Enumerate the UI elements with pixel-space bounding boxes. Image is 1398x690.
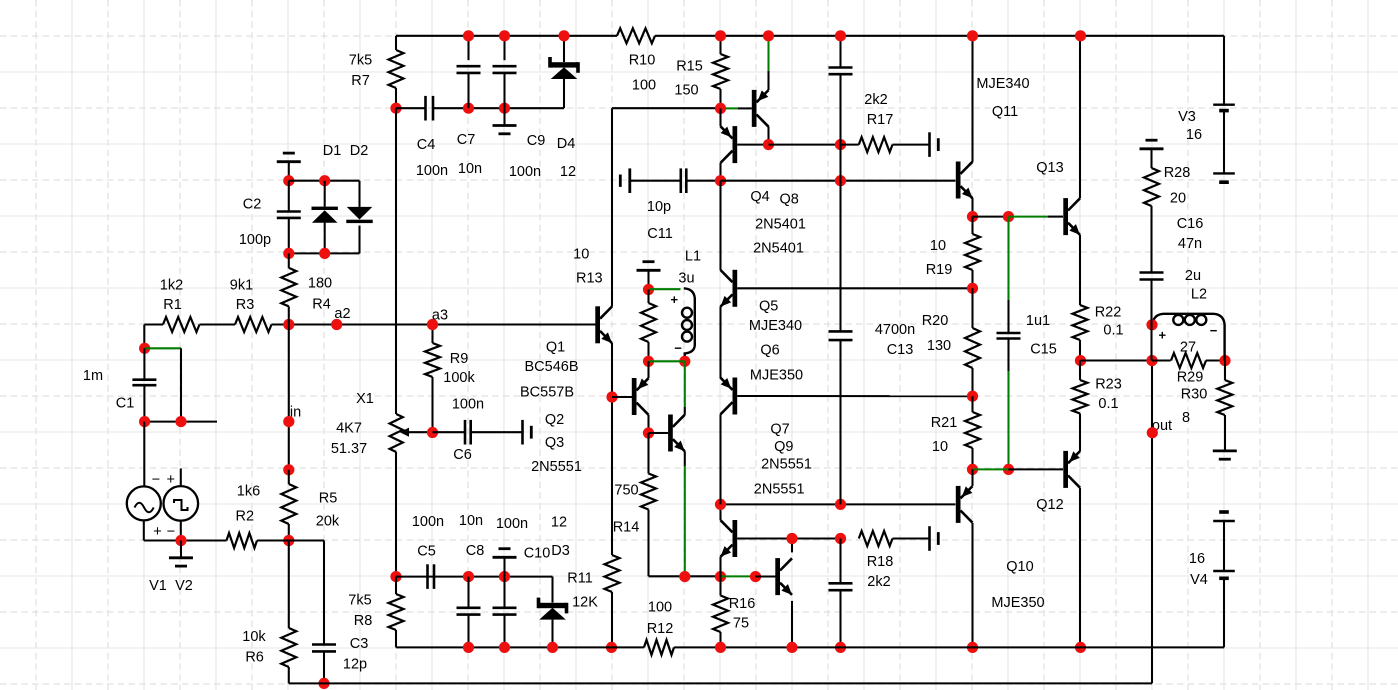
svg-text:R17: R17	[867, 112, 894, 128]
junction	[967, 391, 978, 402]
svg-text:Q6: Q6	[760, 342, 779, 358]
junction	[835, 175, 846, 186]
capacitor C9	[493, 36, 546, 180]
junction	[463, 30, 474, 41]
svg-text:Q5: Q5	[759, 298, 778, 314]
wire	[719, 504, 721, 576]
svg-text:16: 16	[1189, 551, 1205, 567]
junction	[967, 642, 978, 653]
wire	[143, 325, 145, 349]
junction	[1146, 319, 1157, 330]
diode D3	[537, 515, 570, 648]
wire	[719, 108, 721, 180]
junction	[319, 175, 330, 186]
wire	[144, 422, 181, 487]
svg-text:100n: 100n	[509, 164, 541, 180]
resistor R28	[1144, 165, 1190, 272]
svg-text:27: 27	[1180, 340, 1196, 356]
svg-text:D2: D2	[350, 143, 369, 159]
wire	[145, 348, 217, 421]
junction	[283, 175, 294, 186]
svg-text:+: +	[1159, 328, 1167, 343]
svg-text:R28: R28	[1164, 165, 1191, 181]
svg-text:100: 100	[648, 600, 672, 616]
wire	[145, 347, 181, 349]
svg-text:Q7: Q7	[770, 422, 789, 438]
svg-text:Q4: Q4	[750, 189, 769, 205]
wire	[971, 36, 973, 217]
svg-text:2N5551: 2N5551	[531, 459, 582, 475]
resistor R12	[644, 600, 674, 655]
junction	[390, 571, 401, 582]
ground	[277, 153, 301, 181]
svg-text:Q8: Q8	[780, 191, 799, 207]
junction	[463, 103, 474, 114]
svg-text:C11: C11	[647, 226, 673, 242]
svg-text:4700n: 4700n	[875, 322, 915, 338]
resistor R14	[613, 433, 721, 576]
capacitor C4	[416, 96, 448, 179]
resistor R3	[230, 278, 272, 332]
svg-text:R19: R19	[926, 262, 953, 278]
wire	[737, 144, 768, 146]
junction	[1075, 30, 1086, 41]
resistor R7	[349, 50, 404, 89]
ground	[523, 420, 532, 445]
resistor R2	[227, 484, 261, 548]
resistor R9	[425, 325, 475, 433]
wire	[647, 361, 649, 433]
svg-text:130: 130	[927, 338, 951, 354]
junction	[835, 533, 846, 544]
ground	[1140, 140, 1164, 168]
wire +rail	[396, 36, 1224, 105]
junction	[1219, 355, 1230, 366]
svg-text:Q11: Q11	[992, 104, 1018, 120]
wire	[767, 127, 769, 145]
junction	[283, 248, 294, 259]
transistor Q5	[721, 270, 804, 384]
svg-text:0.1: 0.1	[1103, 323, 1123, 339]
wire -rail	[396, 646, 1224, 648]
junction	[967, 464, 978, 475]
svg-text:V4: V4	[1190, 572, 1208, 588]
svg-text:C4: C4	[417, 137, 436, 153]
junction	[786, 533, 797, 544]
wire node in	[289, 325, 301, 470]
svg-text:12: 12	[551, 515, 567, 531]
svg-text:47n: 47n	[1178, 236, 1202, 252]
svg-text:R7: R7	[351, 73, 370, 89]
svg-text:Q3: Q3	[545, 435, 564, 451]
node in	[283, 416, 294, 427]
svg-text:D3: D3	[551, 543, 570, 559]
junction	[1003, 211, 1014, 222]
svg-text:8: 8	[1182, 410, 1190, 426]
svg-text:10: 10	[930, 238, 946, 254]
svg-text:Q9: Q9	[774, 439, 793, 455]
junction	[139, 416, 150, 427]
transistor Q9	[775, 558, 792, 595]
node out	[1147, 427, 1158, 438]
svg-text:150: 150	[674, 83, 698, 99]
svg-text:C15: C15	[1030, 342, 1057, 358]
transistor Q6	[721, 378, 738, 415]
svg-text:10: 10	[573, 247, 589, 263]
diode D2	[346, 143, 372, 253]
wire	[726, 107, 752, 109]
wire	[737, 537, 840, 539]
svg-text:2k2: 2k2	[867, 574, 890, 590]
svg-text:L1: L1	[685, 249, 701, 265]
resistor R5	[281, 470, 340, 541]
svg-text:100n: 100n	[496, 516, 528, 532]
resistor R22	[1073, 304, 1124, 360]
svg-text:75: 75	[733, 616, 749, 632]
svg-text:R10: R10	[629, 53, 656, 69]
svg-text:2k2: 2k2	[864, 92, 887, 108]
junction	[715, 103, 726, 114]
junction	[679, 571, 690, 582]
svg-text:7k5: 7k5	[349, 52, 372, 68]
resistor R13	[573, 247, 656, 362]
svg-text:100k: 100k	[443, 370, 475, 386]
junction	[558, 30, 569, 41]
wire	[722, 575, 756, 577]
svg-text:2N5551: 2N5551	[754, 481, 805, 497]
source V2	[164, 472, 199, 594]
wire	[719, 414, 721, 504]
junction	[1003, 464, 1014, 475]
svg-text:a2: a2	[334, 306, 350, 322]
svg-text:Q13: Q13	[1036, 160, 1063, 176]
inductor L1	[671, 249, 702, 362]
junction	[1146, 355, 1157, 366]
capacitor C8	[457, 513, 485, 647]
wire	[791, 539, 793, 648]
transistor Q2	[531, 378, 648, 475]
wire	[721, 180, 956, 182]
svg-text:R23: R23	[1095, 377, 1122, 393]
svg-text:MJE350: MJE350	[991, 595, 1044, 611]
svg-text:D4: D4	[557, 136, 576, 152]
resistor R21	[931, 396, 980, 469]
svg-text:−: −	[152, 472, 160, 488]
svg-text:R16: R16	[729, 596, 756, 612]
svg-text:R4: R4	[312, 297, 331, 313]
capacitor C7	[457, 36, 483, 177]
svg-text:9k1: 9k1	[230, 278, 253, 294]
transistor Q8	[752, 90, 769, 127]
resistor R1	[160, 278, 200, 332]
svg-text:V1: V1	[149, 578, 167, 594]
battery V3	[1178, 105, 1235, 183]
svg-text:MJE340: MJE340	[749, 318, 802, 334]
wire bottom return	[289, 361, 1152, 684]
svg-text:R3: R3	[236, 297, 255, 313]
junction	[786, 642, 797, 653]
svg-text:C16: C16	[1177, 216, 1204, 232]
junction	[318, 678, 329, 689]
svg-text:1u1: 1u1	[1026, 313, 1050, 329]
svg-text:10: 10	[932, 439, 948, 455]
svg-text:R30: R30	[1181, 387, 1208, 403]
svg-text:X1: X1	[356, 391, 374, 407]
junction	[1075, 355, 1086, 366]
junction	[715, 571, 726, 582]
resistor R15	[674, 36, 728, 109]
svg-text:−: −	[1210, 323, 1218, 338]
wire	[737, 287, 972, 289]
junction	[763, 139, 774, 150]
svg-text:12K: 12K	[572, 595, 598, 611]
junction	[283, 535, 294, 546]
ground	[637, 262, 661, 290]
wire	[144, 520, 289, 540]
svg-text:−: −	[674, 341, 682, 356]
ground	[493, 549, 517, 577]
svg-text:L2: L2	[1191, 287, 1207, 303]
wire	[395, 577, 397, 648]
ground	[1213, 451, 1237, 459]
wire	[971, 469, 973, 647]
svg-text:BC546B: BC546B	[524, 359, 578, 375]
svg-text:100n: 100n	[412, 514, 444, 530]
transistor Q11	[956, 76, 1030, 198]
svg-text:Q12: Q12	[1036, 497, 1063, 513]
wire	[1079, 488, 1081, 648]
junction	[499, 642, 510, 653]
svg-text:20: 20	[1170, 191, 1186, 207]
junction	[835, 642, 846, 653]
resistor R29	[1152, 340, 1225, 386]
potentiometer X1	[331, 391, 433, 457]
capacitor C5	[412, 514, 444, 589]
svg-text:R20: R20	[922, 313, 949, 329]
svg-text:10k: 10k	[242, 629, 266, 645]
resistor R23	[1073, 361, 1122, 452]
svg-text:R6: R6	[245, 650, 264, 666]
wire	[721, 503, 956, 505]
junction	[499, 103, 510, 114]
svg-text:C10: C10	[524, 546, 551, 562]
capacitor C2	[239, 181, 301, 254]
wire	[649, 360, 685, 362]
svg-text:Q1: Q1	[546, 340, 565, 356]
svg-text:180: 180	[308, 276, 332, 292]
capacitor C12	[829, 36, 853, 145]
junction	[715, 499, 726, 510]
svg-text:MJE340: MJE340	[976, 76, 1029, 92]
junction	[715, 30, 726, 41]
svg-text:R29: R29	[1177, 370, 1204, 386]
resistor R17	[841, 92, 930, 152]
resistor R8	[348, 593, 403, 630]
svg-text:2u: 2u	[1185, 268, 1201, 284]
svg-text:0.1: 0.1	[1098, 396, 1118, 412]
svg-text:R14: R14	[613, 520, 640, 536]
svg-text:1k6: 1k6	[237, 484, 260, 500]
ground	[930, 526, 939, 551]
junction	[463, 642, 474, 653]
junction	[499, 30, 510, 41]
svg-text:100n: 100n	[416, 163, 448, 179]
wire	[769, 144, 841, 146]
svg-text:C3: C3	[350, 636, 369, 652]
svg-text:+: +	[671, 292, 679, 307]
wire node a2-a3	[144, 323, 596, 325]
junction	[967, 211, 978, 222]
svg-text:750: 750	[614, 483, 638, 499]
junction	[427, 427, 438, 438]
capacitor C6	[433, 397, 523, 464]
capacitor C3	[312, 636, 368, 683]
wire	[756, 575, 776, 577]
ground	[493, 108, 517, 134]
svg-text:C2: C2	[243, 197, 262, 213]
junction	[643, 284, 654, 295]
transistor Q7	[721, 422, 812, 557]
svg-text:100: 100	[632, 77, 656, 93]
source V1	[127, 472, 167, 594]
wire	[737, 395, 972, 397]
svg-text:Q10: Q10	[1006, 559, 1033, 575]
svg-text:1m: 1m	[83, 368, 103, 384]
wire	[396, 576, 553, 578]
resistor R6	[242, 541, 296, 684]
svg-text:3u: 3u	[678, 271, 694, 287]
svg-text:V2: V2	[175, 578, 193, 594]
wire	[611, 343, 613, 555]
svg-text:+: +	[153, 524, 161, 540]
junction	[967, 283, 978, 294]
wire node out	[1081, 361, 1173, 435]
wire	[396, 107, 564, 109]
junction	[835, 499, 846, 510]
svg-text:10n: 10n	[458, 161, 482, 177]
svg-text:MJE350: MJE350	[750, 368, 803, 384]
resistor R4	[281, 253, 332, 324]
svg-text:51.37: 51.37	[331, 441, 367, 457]
node a3	[427, 308, 448, 331]
junction	[715, 175, 726, 186]
junction	[319, 248, 330, 259]
wire	[650, 288, 681, 290]
wire	[612, 396, 632, 398]
junction	[390, 103, 401, 114]
transistor Q12	[1036, 451, 1080, 513]
wire	[289, 541, 324, 645]
svg-text:+: +	[166, 472, 174, 488]
svg-text:a3: a3	[432, 308, 448, 324]
svg-text:4K7: 4K7	[336, 421, 362, 437]
svg-text:100p: 100p	[239, 232, 271, 248]
junction	[643, 356, 654, 367]
transistor Q10	[956, 486, 1045, 611]
wire	[973, 468, 1009, 470]
wire	[719, 181, 721, 379]
junction	[547, 642, 558, 653]
resistor R30	[1181, 361, 1233, 451]
svg-text:C13: C13	[887, 342, 914, 358]
wire	[684, 451, 686, 576]
junction	[715, 642, 726, 653]
svg-text:10p: 10p	[647, 199, 671, 215]
junction	[175, 535, 186, 546]
diode D4	[548, 36, 580, 180]
svg-text:R1: R1	[163, 297, 182, 313]
wire	[767, 36, 769, 90]
ground	[620, 168, 630, 193]
svg-text:R18: R18	[867, 554, 894, 570]
svg-text:V3: V3	[1178, 109, 1196, 125]
inductor L2	[1152, 268, 1224, 360]
svg-text:C7: C7	[457, 132, 476, 148]
svg-text:R8: R8	[354, 613, 373, 629]
transistor Q1	[520, 306, 612, 400]
capacitor C10	[493, 516, 551, 647]
svg-text:12: 12	[560, 164, 576, 180]
capacitor C15	[997, 217, 1057, 470]
transistor Q13	[1036, 160, 1080, 235]
junction	[283, 319, 294, 330]
junction	[835, 30, 846, 41]
svg-text:R15: R15	[676, 59, 703, 75]
junction	[679, 356, 690, 367]
svg-text:D1: D1	[323, 143, 342, 159]
battery V4	[1189, 512, 1235, 647]
svg-text:R12: R12	[647, 621, 674, 637]
resistor R20	[922, 288, 980, 396]
svg-text:2N5401: 2N5401	[753, 241, 804, 257]
junction	[175, 416, 186, 427]
junction	[283, 464, 294, 475]
svg-text:2N5551: 2N5551	[761, 457, 812, 473]
wire	[612, 108, 721, 306]
junction	[463, 571, 474, 582]
junction	[139, 343, 150, 354]
capacitor C1	[83, 348, 156, 421]
svg-text:R13: R13	[576, 271, 603, 287]
svg-text:R5: R5	[319, 491, 338, 507]
capacitor C14	[829, 539, 853, 648]
svg-text:−: −	[167, 524, 175, 540]
svg-text:10n: 10n	[459, 513, 483, 529]
svg-text:C9: C9	[527, 133, 546, 149]
junction	[835, 139, 846, 150]
junction	[499, 571, 510, 582]
svg-text:1k2: 1k2	[160, 278, 183, 294]
junction	[1075, 642, 1086, 653]
capacitor C16	[1140, 216, 1204, 360]
node a2	[331, 306, 350, 330]
svg-text:R22: R22	[1095, 304, 1122, 320]
wire	[1079, 36, 1081, 305]
wire	[973, 216, 1009, 218]
svg-text:R21: R21	[931, 415, 958, 431]
ground	[930, 132, 939, 157]
resistor R19	[926, 217, 980, 289]
junction	[967, 30, 978, 41]
wire	[395, 36, 397, 108]
wire	[649, 432, 669, 434]
junction	[606, 642, 617, 653]
svg-text:BC557B: BC557B	[520, 385, 574, 401]
capacitor C11	[630, 168, 721, 242]
resistor R18	[841, 531, 930, 590]
svg-text:7k5: 7k5	[348, 593, 371, 609]
junction	[750, 571, 761, 582]
